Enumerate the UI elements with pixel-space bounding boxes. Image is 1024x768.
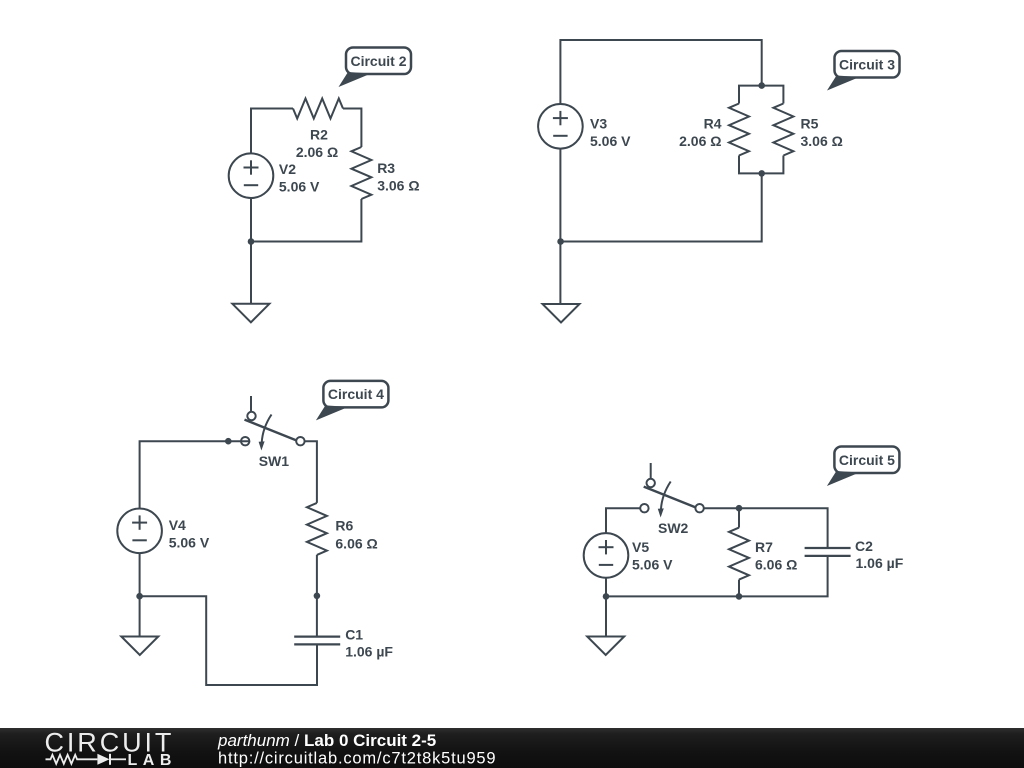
resistor R7 (729, 528, 749, 580)
wire V2 top to R2 (251, 109, 293, 154)
callout Circuit 2 (339, 48, 412, 88)
wire V3 bottom to ground (559, 149, 561, 304)
resistor R5 (773, 104, 793, 156)
label V5 value 5.06 V (632, 557, 673, 573)
svg-text:LAB: LAB (128, 752, 177, 768)
label V4 value 5.06 V (169, 535, 210, 551)
logo text LAB (128, 752, 177, 768)
label C2 value 1.06 uF (856, 555, 904, 571)
node bottom junction (758, 170, 765, 177)
svg-text:R5: R5 (801, 116, 819, 132)
wire C1 bottom loop to V4 bottom (140, 596, 317, 685)
capacitor C2 (805, 548, 851, 556)
label R5 value 3.06 ohm (801, 133, 843, 149)
voltage source V4 (117, 509, 162, 554)
callout Circuit 5 (827, 447, 900, 487)
label R5 (801, 116, 819, 132)
label V3 value 5.06 V (590, 133, 631, 149)
svg-text:SW2: SW2 (658, 520, 689, 536)
svg-text:5.06 V: 5.06 V (169, 535, 210, 551)
voltage source V2 (229, 153, 274, 198)
label R7 (755, 539, 773, 555)
ground GND1 (232, 304, 269, 323)
ground GND3 (121, 637, 158, 656)
label V3 (590, 116, 607, 132)
label R2 value 2.06 ohm (296, 144, 338, 160)
node junction R6-C1 (314, 593, 321, 600)
wire R6 to C1 (316, 555, 318, 637)
wire V5 bottom to ground (605, 578, 607, 637)
logo resistor zigzag (46, 755, 98, 764)
footer bar (0, 728, 1024, 768)
svg-text:5.06 V: 5.06 V (590, 133, 631, 149)
label C1 value 1.06 uF (345, 644, 393, 660)
label R6 value 6.06 ohm (335, 536, 377, 552)
svg-text:5.06 V: 5.06 V (632, 557, 673, 573)
label R4 (704, 116, 722, 132)
svg-text:V5: V5 (632, 539, 649, 555)
svg-text:R6: R6 (335, 518, 353, 534)
label C1 (345, 627, 363, 643)
svg-text:V2: V2 (279, 161, 296, 177)
node junction at V3 bottom (557, 238, 564, 245)
switch SW1 left terminal (241, 437, 249, 445)
svg-text:V4: V4 (169, 517, 186, 533)
svg-text:http://circuitlab.com/c7t2t8k5: http://circuitlab.com/c7t2t8k5tu959 (218, 750, 496, 768)
label V5 (632, 539, 649, 555)
wire R7 bottom lead (738, 580, 740, 597)
node A junction (248, 238, 255, 245)
svg-text:1.06 µF: 1.06 µF (856, 555, 904, 571)
svg-text:2.06 Ω: 2.06 Ω (296, 144, 338, 160)
svg-text:6.06 Ω: 6.06 Ω (335, 536, 377, 552)
label SW2 (658, 520, 689, 536)
capacitor C1 (294, 637, 340, 645)
wire parallel bottom bus (739, 156, 783, 174)
svg-text:Circuit 5: Circuit 5 (839, 452, 895, 468)
svg-text:R2: R2 (310, 127, 328, 143)
label R7 value 6.06 ohm (755, 557, 797, 573)
callout Circuit 3 (827, 51, 900, 91)
svg-text:SW1: SW1 (259, 453, 290, 469)
svg-text:2.06 Ω: 2.06 Ω (679, 133, 721, 149)
node junction at V4 bottom (136, 593, 143, 600)
voltage source V5 (584, 533, 629, 578)
wire V4 top to SW1 (140, 441, 250, 508)
node junction on top wire (225, 438, 232, 445)
label R6 (335, 518, 353, 534)
node junction at V5 bottom (603, 593, 610, 600)
svg-text:R3: R3 (377, 160, 395, 176)
wire parallel top bus (739, 86, 783, 104)
svg-text:C2: C2 (855, 538, 873, 554)
svg-text:5.06 V: 5.06 V (279, 179, 320, 195)
label R4 value 2.06 ohm (679, 133, 721, 149)
wire V5 top to SW2 (606, 508, 640, 533)
wire V2 bottom to ground (250, 198, 252, 304)
resistor R3 (351, 147, 371, 199)
wire C2 bottom to bottom bus (606, 556, 828, 597)
svg-text:Circuit 3: Circuit 3 (839, 56, 895, 72)
wire R7 top lead (738, 508, 740, 527)
label SW1 (259, 453, 290, 469)
svg-text:R7: R7 (755, 539, 773, 555)
wire R2 to R3 (343, 109, 361, 148)
label V2 value 5.06 V (279, 179, 320, 195)
wire V4 bottom to ground (139, 553, 141, 636)
svg-text:V3: V3 (590, 116, 607, 132)
node top junction (758, 82, 765, 89)
svg-text:3.06 Ω: 3.06 Ω (801, 133, 843, 149)
ground GND4 (587, 637, 624, 656)
svg-text:1.06 µF: 1.06 µF (345, 644, 393, 660)
svg-text:R4: R4 (704, 116, 722, 132)
svg-text:6.06 Ω: 6.06 Ω (755, 557, 797, 573)
resistor R4 (729, 104, 749, 156)
svg-text:Circuit 2: Circuit 2 (350, 53, 406, 69)
footer url (218, 750, 496, 768)
label R2 (310, 127, 328, 143)
ground GND2 (543, 304, 580, 323)
svg-text:C1: C1 (345, 627, 363, 643)
switch SW1 (245, 396, 305, 451)
wire SW2 to C2 branch (704, 508, 828, 548)
label C2 (855, 538, 873, 554)
wire parallel pair to V3 bottom (560, 173, 761, 241)
logo diode (97, 754, 126, 765)
wire SW1 to R6 (305, 441, 317, 503)
label R3 value 3.06 ohm (377, 178, 419, 194)
footer title parthunm / Lab 0 Circuit 2-5 (217, 731, 436, 750)
CircuitLab logo text CIRCUIT (45, 728, 175, 758)
voltage source V3 (538, 104, 583, 149)
label V4 (169, 517, 186, 533)
label R3 (377, 160, 395, 176)
resistor R2 (293, 99, 343, 119)
label V2 (279, 161, 296, 177)
callout Circuit 4 (316, 381, 389, 421)
resistor R6 (307, 503, 327, 555)
svg-text:parthunm / Lab 0 Circuit 2-5: parthunm / Lab 0 Circuit 2-5 (217, 731, 436, 750)
wire R3 bottom to node A (251, 199, 361, 242)
switch SW2 (640, 463, 704, 518)
svg-text:3.06 Ω: 3.06 Ω (377, 178, 419, 194)
wire V3 top to parallel pair (560, 40, 761, 104)
node junction R7 top (736, 505, 743, 512)
node junction R7 bottom (736, 593, 743, 600)
svg-text:Circuit 4: Circuit 4 (328, 386, 384, 402)
